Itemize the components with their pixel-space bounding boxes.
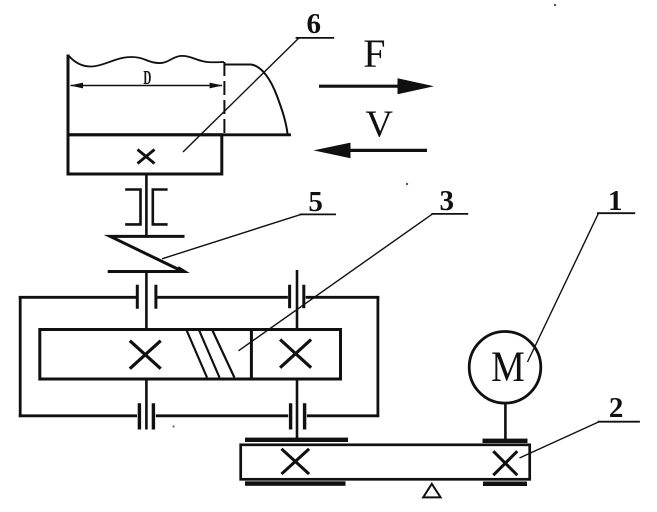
scan speck 3: [172, 425, 174, 427]
velocity arrow V head: [314, 143, 351, 159]
gear block divider: [250, 330, 253, 380]
svg-text:V: V: [365, 104, 393, 146]
svg-text:D: D: [143, 68, 151, 89]
svg-text:M: M: [491, 343, 525, 391]
belt top right edge: [224, 65, 288, 135]
belt break wavy line: [68, 55, 224, 67]
conveyor belt left edge: [67, 55, 70, 176]
label 3 leader: [239, 214, 433, 351]
force arrow F line: [319, 85, 402, 88]
coupling right half flange: [152, 188, 168, 226]
belt drive right shaft cross: [493, 451, 517, 475]
coupling left half flange: [125, 188, 142, 226]
label 5 underline: [300, 213, 336, 215]
bearing bottom right pair: [291, 403, 305, 429]
gear block left shaft cross: [130, 341, 161, 369]
dimension arrowhead right: [210, 83, 223, 89]
label 1 leader: [528, 213, 599, 362]
gear mesh hatch lines: [187, 331, 235, 378]
gearbox housing bottom wall: [19, 414, 379, 417]
force arrow F head: [398, 78, 435, 94]
belt pulley small top rim: [483, 439, 528, 443]
gear block 3 body: [40, 330, 341, 380]
label 2 leader: [520, 422, 600, 458]
dimension arrowhead left: [70, 83, 83, 89]
scan speck 1: [554, 4, 556, 6]
svg-text:F: F: [363, 31, 385, 76]
slip coupling 5 bottom bar: [108, 268, 185, 272]
bearing top left pair: [137, 285, 156, 309]
svg-text:3: 3: [440, 185, 455, 217]
slip coupling 5 top bar and diagonal: [110, 236, 184, 270]
drum 6 body: [68, 135, 222, 174]
belt pulley small bottom rim: [483, 482, 527, 487]
svg-text:5: 5: [308, 186, 323, 218]
motor 1 circle: [469, 332, 541, 404]
gearbox output shaft upper: [145, 272, 148, 331]
gear block right shaft cross: [280, 340, 311, 368]
dimension line D: [71, 85, 223, 87]
bearing bottom left pair: [139, 403, 153, 429]
label 2 underline: [598, 421, 640, 423]
belt drive 2 housing: [241, 445, 530, 480]
label 3 underline: [431, 213, 468, 215]
gearbox input shaft stub: [296, 270, 299, 330]
bearing top right pair: [290, 285, 304, 308]
drum shaft: [145, 176, 148, 238]
velocity arrow V line: [349, 149, 427, 152]
gearbox housing top wall: [19, 296, 379, 299]
gearbox input shaft lower: [296, 379, 299, 441]
belt pulley big bottom rim: [245, 481, 346, 486]
scan speck 2: [406, 183, 408, 185]
support triangle: [423, 484, 440, 498]
label 1 underline: [597, 212, 635, 214]
belt lower run line: [67, 133, 292, 136]
belt pulley big top rim: [245, 438, 348, 442]
label 5 leader: [162, 214, 301, 258]
gearbox output shaft lower: [145, 379, 148, 430]
belt drive left shaft cross: [282, 449, 310, 474]
svg-text:6: 6: [307, 8, 322, 40]
gearbox housing left wall: [19, 296, 22, 417]
dashed drum edge line: [223, 62, 225, 134]
gearbox housing right wall: [376, 296, 379, 417]
motor shaft: [504, 403, 507, 439]
label 6 underline: [296, 37, 335, 39]
svg-text:2: 2: [609, 392, 624, 424]
label 6 leader: [183, 38, 299, 152]
drum 6 shaft cross mark: [138, 150, 155, 164]
